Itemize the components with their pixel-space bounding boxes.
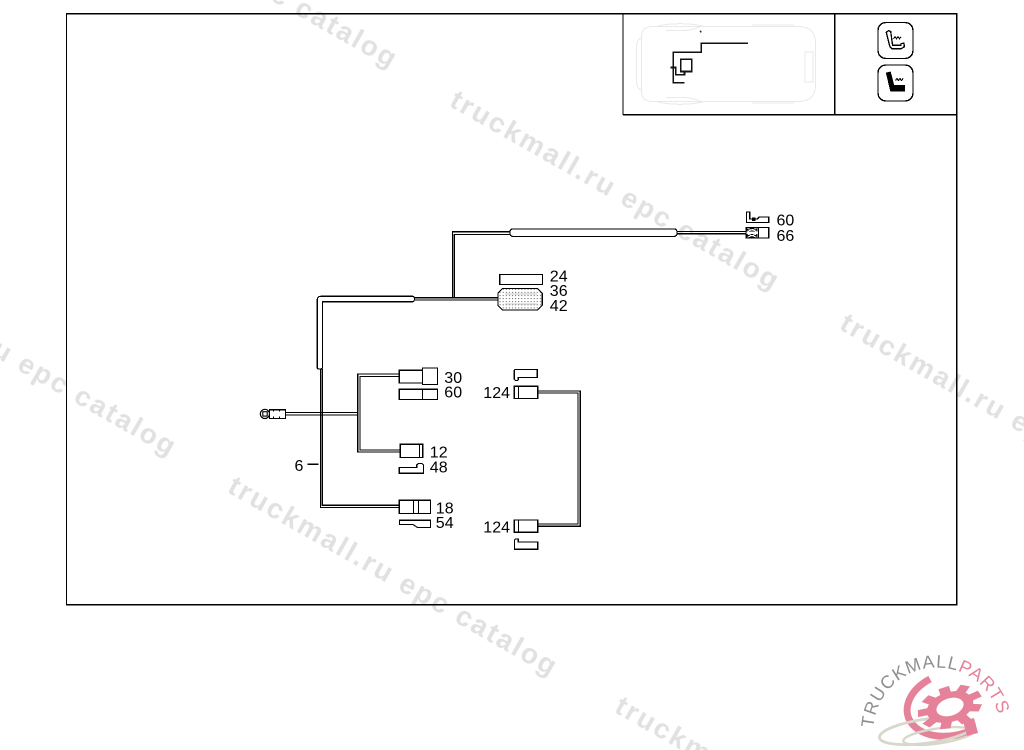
connector 12 xyxy=(400,444,423,457)
logo swirl pink crescent xyxy=(878,679,976,750)
wire vertical2 outer xyxy=(358,374,400,452)
logo gear tang xyxy=(963,718,978,736)
connector 30 xyxy=(399,368,437,385)
ring terminal xyxy=(260,409,285,418)
wire vertical2 inner xyxy=(360,376,400,450)
svg-text:truckmall.ru epc catalog: truckmall.ru epc catalog xyxy=(223,470,564,683)
sleeve elbow left xyxy=(317,296,414,369)
svg-text:truckmall.ru epc catalog: truckmall.ru epc catalog xyxy=(610,690,951,750)
antenna dot xyxy=(700,31,702,33)
sleeve top xyxy=(510,229,677,237)
connector 124 top xyxy=(514,386,538,398)
svg-text:60: 60 xyxy=(444,385,462,402)
wire vertical1 to conn18 outer xyxy=(320,369,399,508)
svg-text:truckmall.ru epc catalog: truckmall.ru epc catalog xyxy=(63,0,404,74)
wire from ring terminal xyxy=(286,413,358,415)
wire top elbow inner xyxy=(454,234,510,298)
svg-text:124: 124 xyxy=(483,385,510,402)
inset box divider xyxy=(834,14,836,115)
wire loop 124 inner xyxy=(538,393,578,524)
svg-text:6: 6 xyxy=(295,458,304,475)
svg-text:48: 48 xyxy=(430,460,448,477)
logo gear xyxy=(912,677,988,737)
connector 54 xyxy=(400,520,431,527)
inset box left edge xyxy=(622,14,624,115)
connector 48 xyxy=(399,464,423,474)
seat icon button top xyxy=(878,23,913,59)
harness sub-box in inset xyxy=(676,67,685,74)
wire mid horizontal xyxy=(414,298,499,300)
main frame border xyxy=(67,14,957,605)
harness connector box in inset xyxy=(681,59,692,71)
svg-text:truckmall.ru epc catalog: truckmall.ru epc catalog xyxy=(835,307,1024,520)
terminal 60 top right xyxy=(746,212,768,222)
cap below connector 124 bottom xyxy=(515,539,538,549)
connector 124 bottom xyxy=(514,520,538,532)
truck top-view outline (light) xyxy=(637,24,816,105)
connector 36/42 dotted xyxy=(498,289,542,310)
wire vertical1 to conn18 inner xyxy=(322,369,399,505)
dash after 6 xyxy=(308,463,319,465)
svg-text:42: 42 xyxy=(550,298,568,315)
wire to terminal 66 xyxy=(677,232,746,234)
svg-text:66: 66 xyxy=(777,228,795,245)
svg-text:60: 60 xyxy=(777,212,795,229)
seat icon button bottom (filled) xyxy=(878,65,913,101)
harness route overlay in inset xyxy=(671,43,749,82)
logo swirl gray ellipse outer xyxy=(878,712,976,749)
svg-text:54: 54 xyxy=(436,515,454,532)
connector 18 xyxy=(399,500,430,513)
wire loop 124 outer xyxy=(538,391,580,526)
svg-text:truckmall.ru epc catalog: truckmall.ru epc catalog xyxy=(0,250,183,463)
connector 24 xyxy=(500,275,543,285)
logo swirl gray ellipse inner xyxy=(902,724,973,749)
inset box bottom edge xyxy=(623,114,957,116)
svg-text:truckmall.ru epc catalog: truckmall.ru epc catalog xyxy=(445,84,786,297)
cap above connector 124 top xyxy=(514,369,537,380)
connector 60 lower xyxy=(399,389,437,399)
terminal 66 top right xyxy=(746,228,769,238)
svg-text:124: 124 xyxy=(483,519,510,536)
wire top elbow outer xyxy=(452,232,510,298)
